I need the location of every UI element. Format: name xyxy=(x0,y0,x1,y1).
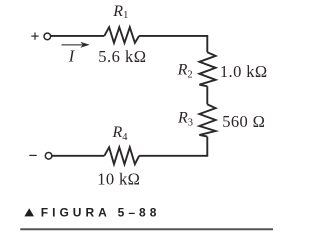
svg-text:I: I xyxy=(68,47,76,66)
svg-text:R4: R4 xyxy=(112,124,129,143)
svg-text:10 kΩ: 10 kΩ xyxy=(97,169,140,188)
svg-text:R2: R2 xyxy=(177,62,193,81)
svg-text:5.6 kΩ: 5.6 kΩ xyxy=(98,47,146,66)
svg-text:FIGURA 5–88: FIGURA 5–88 xyxy=(41,206,161,220)
svg-text:1.0 kΩ: 1.0 kΩ xyxy=(220,62,268,81)
svg-text:560 Ω: 560 Ω xyxy=(222,112,265,131)
svg-text:R3: R3 xyxy=(177,109,193,128)
svg-text:R1: R1 xyxy=(112,3,128,21)
